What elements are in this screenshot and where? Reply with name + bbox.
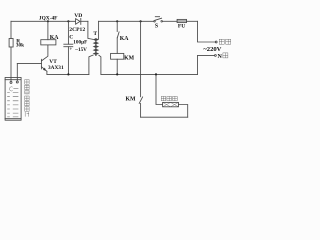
node junction heater left bus: [155, 73, 157, 75]
svg-text:N: N: [218, 54, 223, 60]
wire emitter to bottom bus: [46, 71, 48, 74]
fuse FU: [177, 19, 186, 22]
mercury squiggle: [9, 87, 12, 91]
svg-text:KA: KA: [120, 36, 130, 42]
wire secondary top lead: [88, 21, 93, 39]
wire KM contact to bottom: [140, 103, 142, 117]
node junction KA branch: [47, 20, 49, 22]
scale marks: [7, 88, 18, 117]
wire KA contact to KM coil: [116, 38, 118, 54]
transformer winding braid: [95, 38, 96, 56]
wire neutral run: [198, 55, 215, 74]
diode VD 2CP12: [76, 19, 80, 25]
contact KM: [139, 97, 142, 104]
wire thermometer left terminal inside: [10, 78, 12, 82]
wire top bus left: [11, 20, 76, 22]
heater element: [163, 102, 179, 106]
relay coil KA: [41, 40, 56, 45]
wire between switch and fuse: [163, 20, 178, 22]
svg-text:~220V: ~220V: [203, 46, 221, 53]
relay coil KM: [111, 53, 124, 59]
capacitor C 100uF: [64, 43, 73, 45]
wire secondary bottom lead: [89, 55, 93, 74]
wire top bus right: [99, 20, 154, 22]
svg-text:KM: KM: [126, 97, 137, 103]
wire left rail upper: [10, 21, 12, 38]
wire primary bottom lead: [99, 55, 101, 74]
wire C to bottom bus: [67, 47, 69, 75]
thermometer body: [5, 78, 21, 121]
svg-text:KM: KM: [124, 56, 135, 62]
wire fuse to corner: [187, 20, 198, 22]
wire left rail lower: [10, 47, 12, 78]
svg-text:T: T: [93, 31, 97, 37]
svg-text:100µF: 100µF: [73, 40, 87, 46]
wire KA coil drop: [47, 21, 49, 39]
svg-text:S: S: [155, 24, 158, 30]
label 相线: [219, 39, 231, 44]
node neutral terminal: [215, 55, 217, 57]
svg-text:~15V: ~15V: [75, 47, 87, 53]
wire bottom return: [141, 116, 188, 118]
wire phase drop: [198, 21, 216, 42]
wire thermometer right terminal: [16, 64, 18, 81]
node junction heater branch top: [140, 20, 142, 22]
label 电热器: [161, 96, 177, 100]
node junction KA contact top: [116, 20, 118, 22]
wire heater left lead: [156, 74, 163, 104]
wire KA coil to collector: [42, 45, 48, 61]
svg-text:+: +: [70, 48, 73, 53]
svg-text:3AX31: 3AX31: [48, 65, 64, 71]
wire primary top lead: [98, 21, 100, 39]
svg-text:FU: FU: [178, 24, 185, 30]
wire top bus mid: [81, 20, 88, 22]
wire heater branch drop: [140, 21, 142, 96]
wire heater right lead: [179, 105, 188, 118]
node junction C bottom: [67, 73, 69, 75]
svg-text:VD: VD: [74, 13, 82, 19]
resistor R1 30k: [9, 39, 13, 48]
svg-text:KA: KA: [50, 35, 60, 41]
node phase terminal: [215, 41, 217, 43]
wire C drop: [67, 21, 69, 44]
transistor VT 3AX31: [40, 59, 42, 69]
label 电接点采温度计 vertical: [25, 80, 29, 117]
wire bottom bus right: [101, 73, 198, 75]
node contact electrodes: [10, 81, 12, 83]
wire bottom bus left: [47, 73, 89, 75]
svg-text:2CP12: 2CP12: [69, 27, 85, 33]
switch S: [154, 21, 156, 23]
svg-text:30k: 30k: [16, 43, 24, 49]
contact KA: [116, 21, 118, 31]
node junction C top: [67, 20, 69, 22]
node junction KM coil bottom: [116, 73, 118, 75]
wire KM coil to bus: [116, 59, 118, 74]
